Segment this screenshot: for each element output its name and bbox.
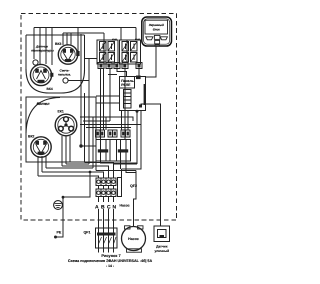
contactor KM2 box xyxy=(120,40,141,64)
wire xyxy=(88,59,90,165)
wire xyxy=(86,127,131,129)
wire xyxy=(92,117,94,168)
wire tap to VK4 pin 3 xyxy=(51,28,53,66)
remote control unit xyxy=(142,17,172,46)
wires QF2 to QF1 xyxy=(99,197,114,229)
wire tap to DK3 pin 3 xyxy=(70,33,72,45)
wire tap to DK3 pin 2 xyxy=(66,33,68,45)
contact row blocks xyxy=(96,130,101,137)
sensor panel box rounded bottom corners (arcs only) xyxy=(26,69,85,93)
svg-text:N: N xyxy=(113,205,117,211)
junction dot boiler xyxy=(79,144,82,147)
svg-text:КМ1: КМ1 xyxy=(112,38,118,41)
wire tap to KM2 coil a xyxy=(120,28,122,41)
wire tap to DK3 pin 1 xyxy=(62,33,64,45)
wire xyxy=(138,69,140,76)
contactor KM1 box xyxy=(97,40,118,64)
relay panel box xyxy=(120,77,146,111)
contact bars xyxy=(98,149,108,152)
svg-text:A: A xyxy=(95,205,99,211)
junction dots ground branch xyxy=(89,171,92,174)
QF1 dark bar xyxy=(97,233,116,236)
wire EK1 drop 1 xyxy=(61,136,63,166)
wire tap to VK4 pin 2 xyxy=(45,28,47,65)
wire bus1 xyxy=(34,27,136,29)
small terminal circle (glow) xyxy=(63,78,68,83)
dashed panel border xyxy=(21,14,177,221)
wire relay to feed 2 xyxy=(122,111,142,170)
svg-text:блок: блок xyxy=(153,27,160,31)
wire xyxy=(105,117,107,130)
small terminal circle (temp sensor) xyxy=(33,60,38,65)
wire pump feed xyxy=(134,171,137,227)
wire feed QF2 pole 1 xyxy=(38,176,99,178)
wire link to bundle xyxy=(66,163,89,165)
phase labels xyxy=(94,202,119,209)
wire relay to feed xyxy=(136,111,138,165)
svg-text:ВК2: ВК2 xyxy=(28,135,35,139)
svg-text:QF1: QF1 xyxy=(84,231,91,235)
svg-text:- 14 -: - 14 - xyxy=(106,264,114,268)
svg-text:КМ2: КМ2 xyxy=(135,38,141,41)
wire EK1 drop 2 xyxy=(65,136,67,164)
QF2 terminal circles xyxy=(97,180,100,183)
junction dot relay bottom xyxy=(136,110,139,113)
svg-text:Насос: Насос xyxy=(120,204,130,208)
wire bus2 xyxy=(63,32,104,34)
svg-text:накалив.: накалив. xyxy=(58,73,71,77)
pin right of DK3 xyxy=(76,51,79,56)
wire upper qf2 bus xyxy=(96,170,136,172)
svg-text:PE: PE xyxy=(57,231,62,235)
wire xyxy=(117,69,127,77)
wire xyxy=(103,69,105,131)
outdoor sensor box xyxy=(154,226,170,242)
svg-text:QF2: QF2 xyxy=(130,184,137,188)
coil diagonals KM2 xyxy=(122,42,137,63)
wire contact block output 2 xyxy=(120,161,122,169)
svg-text:Рисунок 7: Рисунок 7 xyxy=(101,253,120,258)
boiler inner arc xyxy=(26,98,60,134)
wire xyxy=(96,102,120,104)
wire xyxy=(127,111,129,131)
wire xyxy=(121,111,123,131)
breaker QF2 cells xyxy=(96,178,101,186)
wire xyxy=(80,34,82,146)
wire drop to DK3 side pin xyxy=(77,28,79,52)
svg-text:Панель: Панель xyxy=(121,79,134,83)
connector VK4 xyxy=(30,64,53,85)
sensor panel box straight edges xyxy=(26,35,85,93)
connector EK1 xyxy=(55,114,77,136)
boiler box (Котел) xyxy=(26,97,96,162)
wire VK2 drop 1 xyxy=(37,156,39,176)
wire feed QF2 pole 3 xyxy=(62,166,109,178)
wire VK2 drop 2 xyxy=(41,156,43,172)
wire xyxy=(80,124,141,126)
wire xyxy=(108,74,117,76)
wire link to bundle 2 xyxy=(46,167,93,169)
svg-text:уличный: уличный xyxy=(154,249,169,253)
wire tap to VK4 pin 1 xyxy=(39,28,41,65)
wire xyxy=(124,69,126,140)
wire feed QF2 pole 4 xyxy=(85,163,114,179)
wire tap to KM1 coil xyxy=(103,33,105,40)
wire from glow terminal xyxy=(68,80,89,82)
wire xyxy=(83,120,110,122)
wire xyxy=(109,69,111,122)
svg-text:Котел: Котел xyxy=(36,101,50,106)
ground branch wire xyxy=(56,172,91,237)
svg-text:ЕК1: ЕК1 xyxy=(58,110,64,114)
PE dot xyxy=(54,236,57,239)
svg-text:Датчик: Датчик xyxy=(156,245,168,249)
svg-text:температуры: температуры xyxy=(31,48,54,52)
wire xyxy=(95,121,97,171)
wire xyxy=(96,95,120,97)
wire relay to sensor xyxy=(141,104,161,226)
contact block A xyxy=(96,140,117,162)
outdoor sensor inner tab xyxy=(160,235,165,238)
wire feed QF2 pole 2 xyxy=(42,172,104,178)
contact block B xyxy=(110,140,131,162)
wire tap to temp-sensor terminal xyxy=(33,28,35,60)
breaker QF1 box xyxy=(96,228,118,248)
wire EK1 drop 3 xyxy=(69,136,71,162)
KM pin blocks xyxy=(98,63,104,69)
wire feed from relay drop xyxy=(114,163,138,165)
wire VK2 drop 3 xyxy=(45,156,47,168)
relay panel dark marks xyxy=(136,76,141,80)
wire junction to contact blocks xyxy=(81,145,96,147)
ground symbol xyxy=(54,201,63,210)
svg-text:Насос: Насос xyxy=(128,237,139,241)
wire tap to KM2 coil b xyxy=(135,28,137,41)
pump xyxy=(122,226,146,252)
QF1 contact diagonals xyxy=(99,237,117,244)
coil diagonals KM1 xyxy=(100,42,115,63)
KM pin fills xyxy=(100,64,103,68)
wire contact block output 1 xyxy=(101,161,138,163)
svg-text:ВК4: ВК4 xyxy=(47,87,53,91)
svg-text:B: B xyxy=(101,205,105,211)
wire actuator link xyxy=(121,169,123,178)
wire xyxy=(80,117,133,121)
wire to KM1 left xyxy=(85,58,98,60)
contact row pin fills xyxy=(97,132,99,136)
wire remote to relay panel xyxy=(146,46,157,77)
wire xyxy=(100,69,102,140)
svg-text:C: C xyxy=(107,205,111,211)
svg-text:РЕЛЕ: РЕЛЕ xyxy=(121,83,131,87)
wire xyxy=(84,93,86,163)
connector DK3 xyxy=(58,45,77,64)
svg-text:Схема подключения ЭВАН UNIVERS: Схема подключения ЭВАН UNIVERSAL -4б| 5А xyxy=(68,259,153,263)
svg-text:ВК3: ВК3 xyxy=(55,42,62,46)
wire contact block output 3 xyxy=(126,161,136,173)
connector VK2 xyxy=(31,137,51,157)
